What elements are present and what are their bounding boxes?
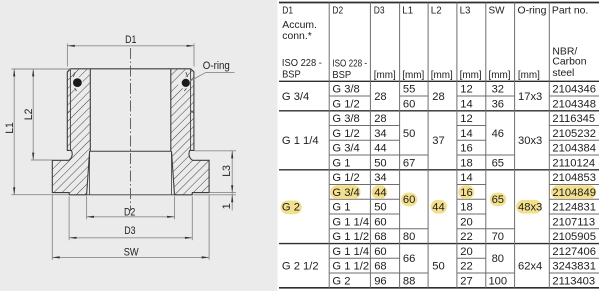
- svg-text:G 1 1/4: G 1 1/4: [332, 246, 369, 258]
- svg-text:L2: L2: [431, 6, 442, 17]
- dim SW: [51, 194, 53, 259]
- svg-text:G 1/2: G 1/2: [332, 98, 359, 110]
- svg-text:G 1/2: G 1/2: [332, 128, 359, 140]
- svg-text:L1: L1: [4, 122, 16, 134]
- svg-text:L1: L1: [402, 6, 413, 17]
- svg-text:2104849: 2104849: [552, 187, 596, 199]
- svg-text:D3: D3: [374, 6, 385, 17]
- svg-text:96: 96: [374, 275, 386, 287]
- svg-text:36: 36: [492, 98, 504, 110]
- svg-text:Accum.: Accum.: [282, 20, 317, 31]
- svg-text:G 3/4: G 3/4: [282, 91, 309, 103]
- svg-text:80: 80: [492, 253, 504, 265]
- svg-text:SW: SW: [489, 6, 505, 17]
- svg-text:2104346: 2104346: [552, 84, 596, 96]
- svg-text:2104384: 2104384: [552, 143, 596, 155]
- svg-text:O-ring: O-ring: [203, 60, 230, 72]
- svg-text:68: 68: [374, 261, 386, 273]
- thread root lines: [69, 69, 71, 151]
- svg-text:Part no.: Part no.: [552, 6, 588, 17]
- svg-text:steel: steel: [552, 68, 574, 79]
- svg-text:20: 20: [460, 246, 472, 258]
- svg-text:L2: L2: [23, 109, 35, 121]
- svg-text:BSP: BSP: [332, 70, 351, 81]
- svg-text:65: 65: [492, 157, 504, 169]
- top face edge: [70, 68, 190, 70]
- svg-text:44: 44: [374, 143, 386, 155]
- svg-text:37: 37: [432, 135, 444, 147]
- dim L1: [12, 68, 71, 70]
- dim 1: [194, 194, 237, 196]
- svg-text:G 1 1/2: G 1 1/2: [332, 261, 369, 273]
- countersink edges: [89, 151, 91, 195]
- svg-text:O-ring: O-ring: [518, 6, 547, 17]
- svg-text:[mm]: [mm]: [374, 70, 396, 81]
- svg-text:2116345: 2116345: [552, 113, 595, 125]
- svg-text:Carbon: Carbon: [552, 57, 586, 68]
- svg-text:44: 44: [432, 202, 444, 214]
- svg-text:46: 46: [492, 128, 504, 140]
- svg-text:50: 50: [403, 128, 415, 140]
- svg-text:2124831: 2124831: [552, 202, 596, 214]
- svg-text:G 1: G 1: [332, 202, 350, 214]
- svg-text:[mm]: [mm]: [460, 70, 482, 81]
- svg-text:L3: L3: [460, 6, 471, 17]
- highlight pills: [281, 201, 302, 215]
- svg-text:55: 55: [403, 84, 415, 96]
- svg-text:80: 80: [403, 231, 415, 243]
- svg-text:17x3: 17x3: [518, 91, 542, 103]
- table column lines: [328, 3, 330, 288]
- dim L3: [195, 150, 237, 152]
- section wall left (hatched): [52, 69, 90, 195]
- o-ring label: [189, 72, 235, 81]
- svg-text:14: 14: [460, 172, 472, 184]
- svg-text:20: 20: [460, 216, 472, 228]
- table top border: [279, 2, 599, 4]
- svg-text:60: 60: [403, 194, 415, 206]
- table header bottom border: [279, 80, 599, 82]
- svg-text:14: 14: [460, 98, 472, 110]
- svg-text:3243831: 3243831: [552, 261, 596, 273]
- dim D3: [68, 197, 70, 241]
- svg-text:SW: SW: [124, 247, 139, 259]
- section wall right (hatched): [171, 69, 209, 195]
- dim D2: [86, 196, 88, 219]
- svg-text:conn.*: conn.*: [282, 31, 311, 42]
- table bottom border: [279, 287, 599, 289]
- svg-text:28: 28: [374, 91, 386, 103]
- table inner row lines: [329, 95, 370, 97]
- svg-text:50: 50: [374, 157, 386, 169]
- svg-text:G 1: G 1: [332, 157, 350, 169]
- svg-text:100: 100: [488, 275, 507, 287]
- svg-text:50: 50: [432, 261, 444, 273]
- svg-text:2113403: 2113403: [552, 275, 595, 287]
- svg-text:L3: L3: [221, 165, 233, 177]
- svg-text:30x3: 30x3: [518, 135, 542, 147]
- svg-text:ISO 228 -: ISO 228 -: [282, 58, 322, 69]
- svg-text:60: 60: [374, 246, 386, 258]
- svg-text:[mm]: [mm]: [489, 70, 511, 81]
- bore shoulder edge: [90, 150, 172, 152]
- svg-text:G 1 1/2: G 1 1/2: [332, 231, 369, 243]
- svg-text:28: 28: [432, 91, 444, 103]
- svg-text:27: 27: [460, 275, 472, 287]
- svg-text:68: 68: [374, 231, 386, 243]
- svg-text:G 3/4: G 3/4: [332, 143, 359, 155]
- svg-text:70: 70: [492, 231, 504, 243]
- svg-text:G 2: G 2: [282, 202, 300, 214]
- svg-text:2105905: 2105905: [552, 231, 596, 243]
- svg-text:44: 44: [374, 187, 386, 199]
- svg-text:BSP: BSP: [282, 70, 301, 81]
- svg-text:16: 16: [460, 187, 472, 199]
- svg-text:18: 18: [460, 157, 472, 169]
- svg-text:65: 65: [492, 194, 504, 206]
- svg-text:G 2 1/2: G 2 1/2: [282, 261, 319, 273]
- svg-text:62x4: 62x4: [518, 261, 542, 273]
- svg-text:34: 34: [374, 128, 386, 140]
- svg-text:G 3/4: G 3/4: [332, 187, 359, 199]
- svg-text:D1: D1: [125, 34, 136, 46]
- svg-text:1: 1: [221, 203, 233, 209]
- svg-text:G 1 1/4: G 1 1/4: [282, 135, 319, 147]
- svg-text:12: 12: [460, 113, 472, 125]
- svg-text:[mm]: [mm]: [518, 70, 540, 81]
- svg-text:12: 12: [460, 84, 472, 96]
- svg-text:G 2: G 2: [332, 275, 350, 287]
- svg-text:2104853: 2104853: [552, 172, 596, 184]
- svg-text:G 3/8: G 3/8: [332, 113, 359, 125]
- svg-text:G 1/2: G 1/2: [332, 172, 359, 184]
- centerline: [130, 48, 132, 211]
- group separator lines: [279, 110, 599, 112]
- dim D1: [66, 43, 68, 66]
- svg-text:48x3: 48x3: [518, 202, 542, 214]
- svg-text:[mm]: [mm]: [402, 70, 424, 81]
- o-ring groove chamfers: [73, 72, 75, 77]
- svg-text:60: 60: [403, 98, 415, 110]
- svg-text:28: 28: [374, 113, 386, 125]
- svg-text:[mm]: [mm]: [431, 70, 453, 81]
- svg-text:32: 32: [492, 84, 504, 96]
- svg-text:D3: D3: [124, 225, 135, 237]
- svg-text:50: 50: [374, 202, 386, 214]
- svg-text:ISO 228 -: ISO 228 -: [332, 58, 367, 69]
- svg-text:G 1 1/4: G 1 1/4: [332, 216, 369, 228]
- o-ring left: [73, 78, 82, 87]
- svg-text:2107113: 2107113: [552, 216, 595, 228]
- svg-text:18: 18: [460, 202, 472, 214]
- svg-text:60: 60: [374, 216, 386, 228]
- svg-text:22: 22: [460, 231, 472, 243]
- svg-text:D2: D2: [124, 206, 135, 218]
- part outline left: [52, 69, 89, 195]
- svg-text:2105232: 2105232: [552, 128, 596, 140]
- svg-text:22: 22: [460, 261, 472, 273]
- svg-text:14: 14: [460, 128, 472, 140]
- bore bottom edge: [87, 194, 175, 196]
- svg-text:16: 16: [460, 143, 472, 155]
- svg-text:D1: D1: [282, 6, 293, 17]
- svg-text:2110124: 2110124: [552, 157, 595, 169]
- o-ring right: [182, 79, 190, 87]
- svg-text:2104348: 2104348: [552, 98, 596, 110]
- drawing panel background: [0, 0, 278, 291]
- svg-text:D2: D2: [332, 6, 343, 17]
- part outline right: [172, 69, 210, 195]
- bore edges: [89, 69, 91, 152]
- svg-text:67: 67: [403, 157, 415, 169]
- svg-text:G 3/8: G 3/8: [332, 84, 359, 96]
- svg-text:88: 88: [403, 275, 415, 287]
- dim L2: [31, 159, 52, 161]
- svg-text:34: 34: [374, 172, 386, 184]
- svg-text:66: 66: [403, 253, 415, 265]
- svg-text:2127406: 2127406: [552, 246, 596, 258]
